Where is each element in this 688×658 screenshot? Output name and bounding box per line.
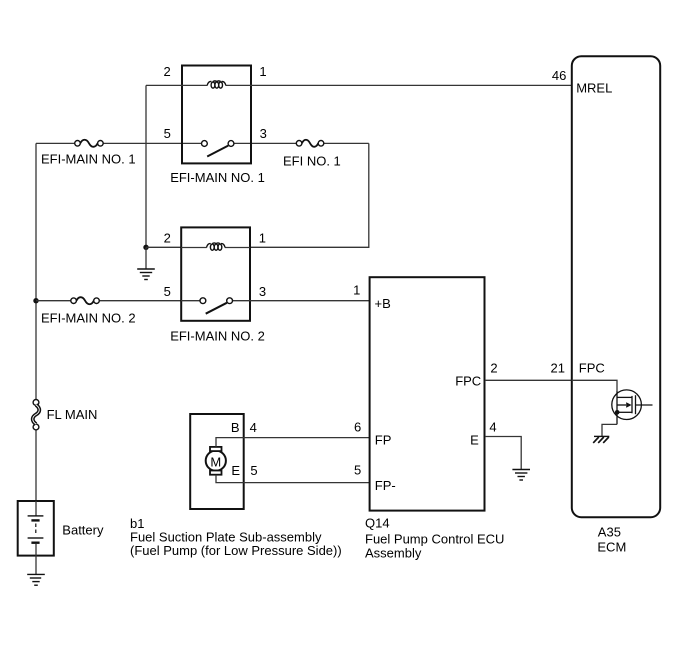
wire FPC inside ECM to transistor xyxy=(572,380,618,390)
svg-text:Fuel Pump Control ECU: Fuel Pump Control ECU xyxy=(365,531,504,546)
fusible link FL MAIN xyxy=(33,400,40,430)
battery xyxy=(18,501,54,556)
relay2 coil xyxy=(207,243,226,250)
wire left bus vertical (battery+ feed) xyxy=(35,143,37,501)
svg-text:1: 1 xyxy=(259,230,266,245)
svg-text:46: 46 xyxy=(552,68,566,83)
wire pump E pin5 to Q14 FP- pin5 xyxy=(216,475,369,483)
wire relay2 coil pin2 side xyxy=(181,247,250,249)
relay1 switch contacts xyxy=(202,141,234,157)
svg-text:EFI-MAIN NO. 2: EFI-MAIN NO. 2 xyxy=(41,310,136,325)
svg-text:B: B xyxy=(231,420,240,435)
svg-text:5: 5 xyxy=(354,463,361,478)
svg-text:2: 2 xyxy=(164,230,171,245)
wire relay1 pin2 to ground junction xyxy=(145,85,147,247)
wire junction to relay2 pin2 xyxy=(146,246,181,248)
svg-text:Battery: Battery xyxy=(62,523,104,538)
svg-text:1: 1 xyxy=(353,283,360,298)
relay2 switch contacts xyxy=(200,298,233,314)
ground (relay coils) xyxy=(137,269,155,280)
svg-text:ECM: ECM xyxy=(597,540,626,555)
fuse EFI NO. 1 xyxy=(296,140,324,147)
fuse EFI-MAIN NO. 1 xyxy=(75,140,104,147)
svg-text:FP-: FP- xyxy=(375,478,396,493)
wire EFI NO.1 fuse down to relay2 coil pin1 xyxy=(250,143,369,247)
wire pump B pin4 to Q14 FP pin6 xyxy=(216,438,369,447)
svg-text:EFI-MAIN NO. 2: EFI-MAIN NO. 2 xyxy=(170,329,265,344)
svg-text:Assembly: Assembly xyxy=(365,545,422,560)
svg-text:FPC: FPC xyxy=(455,374,481,389)
wire EFI-MAIN NO.1 fuse row to relay1 pin 5 xyxy=(36,142,252,144)
svg-text:EFI NO. 1: EFI NO. 1 xyxy=(283,153,341,168)
wire junction to ground xyxy=(145,247,147,269)
svg-text:6: 6 xyxy=(354,420,361,435)
wire transistor source to chassis ground xyxy=(602,424,617,436)
svg-text:3: 3 xyxy=(259,284,266,299)
svg-text:EFI-MAIN NO. 1: EFI-MAIN NO. 1 xyxy=(41,151,136,166)
svg-text:M: M xyxy=(210,454,221,469)
wire Q14 E pin4 to ground xyxy=(485,437,521,470)
junction node EFI-MAIN NO.2 tap xyxy=(33,298,38,303)
wire relay1 pin3 through EFI NO.1 fuse xyxy=(252,142,369,144)
fuse EFI-MAIN NO. 2 xyxy=(71,297,100,304)
svg-text:A35: A35 xyxy=(598,525,621,540)
wire EFI-MAIN NO.2 branch xyxy=(36,300,181,302)
svg-text:E: E xyxy=(470,433,479,448)
svg-text:5: 5 xyxy=(164,284,171,299)
svg-text:+B: +B xyxy=(375,296,391,311)
svg-text:5: 5 xyxy=(250,463,257,478)
wire relay2 switch pin5 inside xyxy=(181,300,250,302)
ground (battery) xyxy=(27,574,45,585)
motor M xyxy=(206,447,226,475)
svg-text:3: 3 xyxy=(260,126,267,141)
svg-text:21: 21 xyxy=(551,361,565,376)
svg-text:Q14: Q14 xyxy=(365,516,390,531)
relay1 coil xyxy=(207,81,226,88)
chassis ground (ECM) xyxy=(593,436,609,443)
junction node relay coils ground xyxy=(143,245,148,250)
svg-text:4: 4 xyxy=(250,420,257,435)
transistor (MOSFET) in ECM xyxy=(612,390,653,424)
fuel pump b1 (box) xyxy=(190,414,244,509)
ECM A35 (box) xyxy=(572,56,660,517)
svg-text:(Fuel Pump (for Low Pressure S: (Fuel Pump (for Low Pressure Side)) xyxy=(130,543,342,558)
svg-text:2: 2 xyxy=(490,361,497,376)
svg-text:4: 4 xyxy=(489,420,496,435)
svg-text:MREL: MREL xyxy=(576,81,612,96)
wire battery- to ground xyxy=(35,556,37,574)
Q14 Fuel Pump Control ECU (box) xyxy=(370,277,485,510)
transistor arrow xyxy=(626,402,631,408)
svg-text:2: 2 xyxy=(163,64,170,79)
svg-text:FP: FP xyxy=(375,433,392,448)
relay EFI-MAIN NO. 1 (box) xyxy=(182,66,251,164)
svg-text:FPC: FPC xyxy=(579,361,605,376)
wire relay2 pin3 to Q14 +B pin1 xyxy=(250,300,369,302)
wire MREL: relay1 coil pin1 to ECM pin46 xyxy=(146,84,572,86)
svg-text:EFI-MAIN NO. 1: EFI-MAIN NO. 1 xyxy=(170,170,265,185)
svg-text:FL MAIN: FL MAIN xyxy=(47,407,98,422)
ground (Q14 E) xyxy=(512,470,530,481)
svg-text:E: E xyxy=(231,463,240,478)
svg-text:1: 1 xyxy=(259,64,266,79)
wire Q14 FPC pin2 to ECM pin21 xyxy=(485,379,572,381)
svg-text:5: 5 xyxy=(164,126,171,141)
relay EFI-MAIN NO. 2 (box) xyxy=(181,227,250,320)
junction node transistor source/body xyxy=(615,410,620,415)
